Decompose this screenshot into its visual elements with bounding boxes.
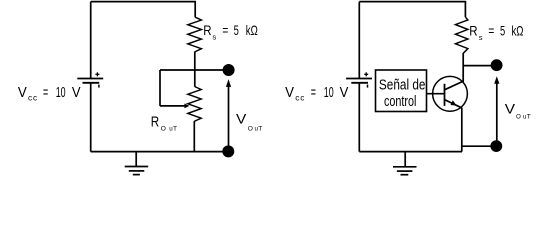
transistor base wire <box>427 93 445 95</box>
svg-text:OuT: OuT <box>161 126 177 133</box>
emitter wire down to rail <box>461 108 463 152</box>
label V_OUT (left) <box>236 112 262 133</box>
wire bottom rail right circuit <box>359 151 462 153</box>
label Vcc = 10 V (left) <box>18 85 81 102</box>
control box (Señal de control) <box>376 70 427 112</box>
svg-text:OuT: OuT <box>516 114 531 121</box>
svg-text:5: 5 <box>500 24 505 39</box>
transistor emitter lead with arrowhead <box>445 100 462 108</box>
wire left rail lower (right circuit) <box>358 83 360 152</box>
svg-text:cc: cc <box>295 92 305 102</box>
wire left rail upper (right circuit) <box>358 2 360 79</box>
battery V2 (Vcc right) <box>346 72 372 87</box>
svg-text:kΩ: kΩ <box>246 23 258 38</box>
svg-text:s: s <box>213 33 217 42</box>
ground (right circuit) <box>393 152 417 175</box>
transistor Q1 circle <box>433 76 468 111</box>
wire resistor bottom to potentiometer top <box>194 52 196 87</box>
node dot top (right) <box>491 59 503 71</box>
ground (left circuit) <box>125 152 149 175</box>
collector wire (resistor bottom down into transistor) <box>462 53 464 82</box>
svg-text:V: V <box>236 112 246 127</box>
wire top rail left circuit <box>91 2 196 18</box>
svg-text:R: R <box>469 24 477 39</box>
transistor base bar <box>444 84 446 106</box>
wire output top (left) to node <box>160 69 229 71</box>
svg-text:OuT: OuT <box>248 125 263 132</box>
svg-text:V: V <box>18 85 27 101</box>
svg-text:kΩ: kΩ <box>512 24 524 39</box>
svg-text:=: = <box>311 85 316 101</box>
label Vcc = 10 V (right) <box>285 85 349 102</box>
wire to top node (right) <box>463 65 491 67</box>
svg-text:Señal de: Señal de <box>379 77 426 94</box>
transistor collector lead <box>445 81 463 89</box>
label Señal de control <box>379 77 426 110</box>
svg-text:cc: cc <box>28 92 38 102</box>
svg-text:R: R <box>151 113 159 130</box>
svg-text:=: = <box>222 23 228 38</box>
resistor R_s (right) zigzag <box>455 17 468 53</box>
wire left rail lower (left circuit) <box>90 83 92 152</box>
label R_OUT (left) <box>151 113 177 132</box>
svg-text:10: 10 <box>324 85 334 101</box>
svg-text:5: 5 <box>234 23 239 38</box>
svg-text:control: control <box>384 93 416 110</box>
label Rs = 5 kOhm (right) <box>469 24 523 42</box>
resistor R_s (left) zigzag <box>188 17 202 52</box>
wire pot bottom to rail <box>193 121 195 151</box>
svg-text:10: 10 <box>56 85 66 101</box>
svg-text:R: R <box>203 23 211 38</box>
wire bottom rail left circuit <box>91 151 229 153</box>
svg-text:s: s <box>479 33 483 42</box>
node dot bottom (left) <box>222 145 234 157</box>
svg-text:V: V <box>340 85 349 101</box>
wire pot loop left vertical <box>159 70 161 106</box>
svg-text:V: V <box>285 85 294 101</box>
label V_OUT (right) <box>505 102 531 121</box>
potentiometer R_OUT zigzag <box>188 87 201 122</box>
svg-text:V: V <box>72 85 81 101</box>
wire to bottom node (right) <box>462 145 491 147</box>
svg-text:=: = <box>488 24 494 39</box>
V_OUT arrow (left) <box>226 79 231 146</box>
V_OUT arrow (right) <box>494 76 499 141</box>
node dot bottom (right) <box>490 140 502 152</box>
svg-text:V: V <box>505 102 515 117</box>
wire left rail upper (left circuit) <box>90 2 92 79</box>
wiper arrow of potentiometer <box>160 104 189 109</box>
wire top rail right circuit <box>359 2 465 18</box>
svg-text:=: = <box>43 85 48 101</box>
battery V1 (Vcc left) <box>77 72 103 87</box>
node dot top (left) <box>223 64 235 76</box>
label Rs = 5 kOhm (left) <box>203 23 258 41</box>
